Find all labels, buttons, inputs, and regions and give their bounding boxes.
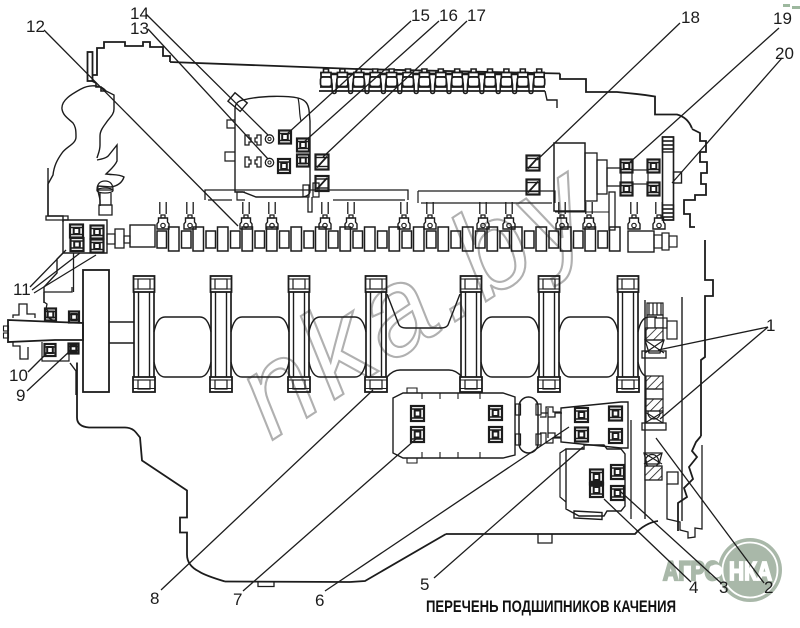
svg-text:3: 3 [719,578,728,597]
svg-text:16: 16 [439,6,458,25]
svg-text:8: 8 [150,589,159,608]
svg-text:5: 5 [420,575,429,594]
svg-text:10: 10 [9,366,28,385]
svg-text:2: 2 [764,578,773,597]
svg-text:18: 18 [681,8,700,27]
svg-text:11: 11 [13,280,31,299]
svg-text:12: 12 [26,17,45,36]
svg-text:7: 7 [233,590,242,609]
svg-text:20: 20 [775,44,794,63]
svg-text:17: 17 [467,6,486,25]
svg-text:13: 13 [130,19,149,38]
svg-text:4: 4 [689,578,698,597]
svg-text:6: 6 [315,591,324,610]
svg-text:ПЕРЕЧЕНЬ ПОДШИПНИКОВ КАЧЕНИЯ: ПЕРЕЧЕНЬ ПОДШИПНИКОВ КАЧЕНИЯ [426,598,676,616]
svg-text:1: 1 [766,316,775,335]
svg-text:19: 19 [773,9,792,28]
svg-text:15: 15 [411,6,430,25]
svg-text:9: 9 [16,386,25,405]
